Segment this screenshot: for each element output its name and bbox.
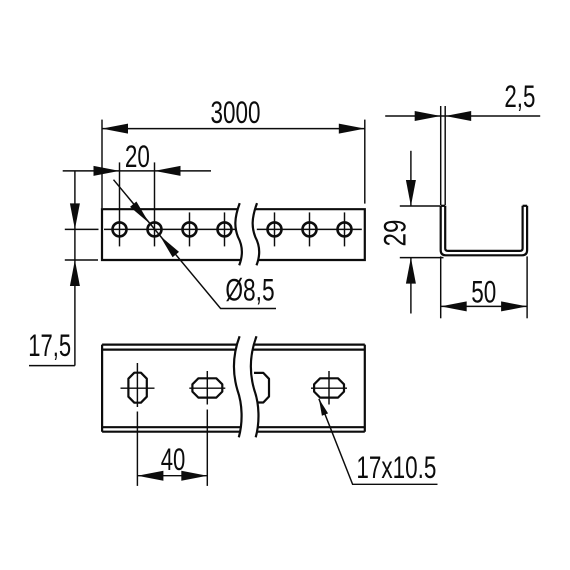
dimension 29 arrow upper xyxy=(406,180,416,206)
dimension 20 arrow left xyxy=(94,166,120,176)
dimension 29 extension line upper xyxy=(400,205,440,207)
slot 1 horizontal center mark xyxy=(121,387,155,389)
hole centerline left xyxy=(104,228,241,230)
dimension 29 arrow lower xyxy=(406,258,416,284)
svg-text:3000: 3000 xyxy=(211,94,261,130)
hole 7 vertical center mark xyxy=(344,212,346,246)
dimension 17,5 extension line lower xyxy=(65,259,98,261)
svg-text:2,5: 2,5 xyxy=(504,78,535,114)
dimension 20 extension line hole 1 xyxy=(119,162,121,246)
dimension 50 extension line right xyxy=(526,256,528,318)
dimension 17,5 text underline xyxy=(29,365,75,367)
dimension 50 arrow left xyxy=(441,301,467,311)
cross-section inner contour xyxy=(445,206,522,251)
dimension 17,5 arrow upper xyxy=(70,203,80,229)
dimension 40 extension line right xyxy=(206,410,208,486)
dimension 20 line xyxy=(63,170,211,172)
leader diameter 8,5 upper arrow xyxy=(130,202,149,224)
cross-section right wall top cap xyxy=(523,205,528,207)
partial slot at break xyxy=(254,373,269,403)
svg-text:50: 50 xyxy=(471,273,496,309)
dimension 29 extension line lower xyxy=(400,257,444,259)
slot 2 horizontal center mark xyxy=(189,387,225,389)
leader diameter 8,5 lower arrow xyxy=(160,236,179,258)
top view break line left xyxy=(234,336,242,437)
dimension 2,5 wall extension line inner xyxy=(444,106,446,205)
slot 3 (horizontal slot) xyxy=(314,378,344,397)
dimension 40 arrow left xyxy=(137,471,163,481)
svg-text:Ø8,5: Ø8,5 xyxy=(225,271,274,307)
side view break white gap xyxy=(235,203,259,265)
dimension 17,5 line vertical xyxy=(74,171,76,366)
svg-text:17x10.5: 17x10.5 xyxy=(356,449,436,485)
svg-text:17,5: 17,5 xyxy=(28,327,71,363)
slot 1 (vertical slot) xyxy=(128,373,146,403)
hole 2 xyxy=(148,222,162,236)
dimension 20 arrow right xyxy=(155,166,181,176)
dimension 3000 extension line right xyxy=(364,120,366,204)
dimension 2,5 line xyxy=(385,115,540,117)
hole 6 vertical center mark xyxy=(309,212,311,246)
leader diameter 8,5 line xyxy=(114,180,277,309)
side view break line left xyxy=(235,203,242,265)
svg-text:20: 20 xyxy=(125,138,150,174)
hole 3 xyxy=(183,222,197,236)
dimension 3000 line xyxy=(102,128,365,130)
hole 1 xyxy=(113,222,127,236)
slot 2 vertical center mark xyxy=(206,371,208,405)
hole 4 xyxy=(218,222,232,236)
top view outer top edge xyxy=(102,344,365,346)
leader 17x10.5 arrow xyxy=(319,399,328,416)
dimension 40 extension line left xyxy=(136,412,138,486)
hole 5 xyxy=(268,222,282,236)
top view left edge xyxy=(101,345,103,432)
dimension 3000 extension line left xyxy=(101,120,103,209)
dimension 29 line lower xyxy=(410,258,412,314)
dimension 50 line xyxy=(441,305,527,307)
hole 3 vertical center mark xyxy=(189,212,191,246)
dimension 2,5 arrow right xyxy=(445,111,471,121)
dimension 3000 arrow right xyxy=(339,124,365,134)
dimension 29 line upper xyxy=(410,151,412,206)
slot 3 vertical center mark xyxy=(328,371,330,405)
dimension 2,5 wall extension line outer xyxy=(440,106,442,205)
side view break line right xyxy=(253,203,260,265)
svg-text:29: 29 xyxy=(376,220,412,247)
dimension 50 arrow right xyxy=(501,301,527,311)
svg-text:40: 40 xyxy=(161,441,186,477)
slot 1 vertical center mark xyxy=(136,363,138,407)
top view right edge xyxy=(364,345,366,432)
top view outer bottom edge xyxy=(102,431,365,433)
cross-section outer contour xyxy=(441,206,527,256)
side view bar outline xyxy=(102,209,365,260)
dimension 17,5 arrow lower xyxy=(70,260,80,286)
dimension 40 line xyxy=(137,475,207,477)
top view inner bottom line xyxy=(102,426,365,428)
dimension 17,5 extension line upper xyxy=(65,228,99,230)
dimension 20 extension line hole 2 xyxy=(154,162,156,246)
hole 7 xyxy=(338,222,352,236)
dimension 50 extension line left xyxy=(440,256,442,318)
top view break white gap xyxy=(234,336,259,437)
hole centerline right xyxy=(257,228,362,230)
dimension 3000 arrow left xyxy=(102,124,128,134)
top view inner top line xyxy=(102,349,365,351)
hole 4 vertical center mark xyxy=(224,212,226,246)
hole 6 xyxy=(303,222,317,236)
leader 17x10.5 line xyxy=(319,399,438,485)
dimension 2,5 arrow left xyxy=(415,111,441,121)
dimension 40 arrow right xyxy=(181,471,207,481)
hole 5 vertical center mark xyxy=(274,212,276,246)
top view break line right xyxy=(251,336,259,437)
cross-section left wall top cap xyxy=(441,205,446,207)
slot 3 horizontal center mark xyxy=(311,387,347,389)
slot 2 (horizontal slot) xyxy=(192,378,222,397)
